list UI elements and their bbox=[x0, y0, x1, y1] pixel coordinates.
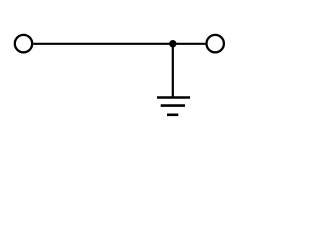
terminal circle left bbox=[15, 35, 32, 52]
terminal circle right bbox=[207, 35, 224, 52]
ground bbox=[157, 98, 190, 115]
wire bbox=[172, 44, 174, 98]
node junction bbox=[169, 40, 176, 47]
wire bbox=[33, 43, 205, 45]
